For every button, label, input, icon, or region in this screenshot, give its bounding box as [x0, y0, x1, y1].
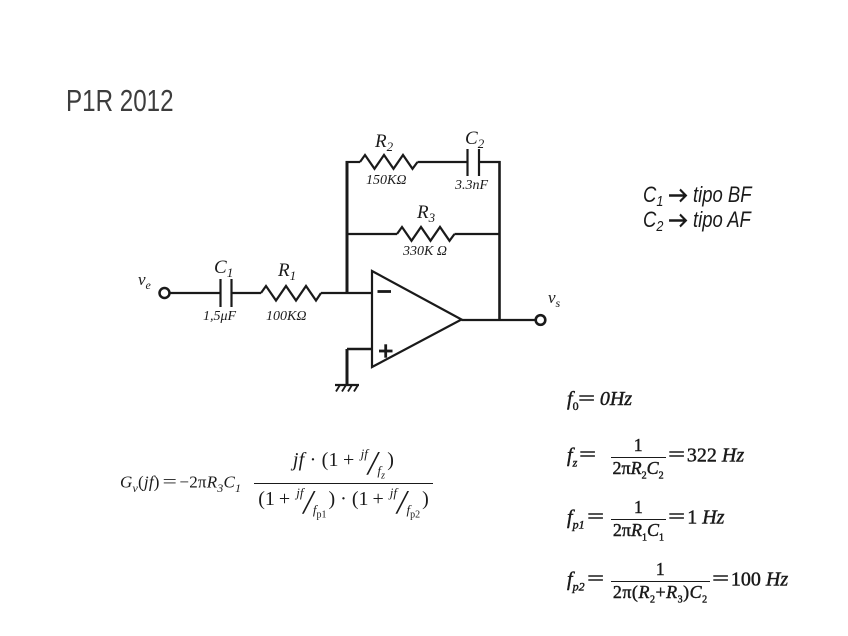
svg-text:3.3nF: 3.3nF [454, 178, 489, 193]
svg-text:R1: R1 [277, 260, 296, 283]
svg-text:100KΩ: 100KΩ [266, 309, 306, 324]
svg-text:vs: vs [548, 288, 561, 310]
svg-text:C2: C2 [465, 128, 485, 151]
svg-text:R2: R2 [374, 131, 394, 154]
svg-text:C1: C1 [214, 257, 233, 280]
svg-text:150KΩ: 150KΩ [366, 173, 406, 188]
svg-text:R3: R3 [416, 202, 436, 225]
svg-text:1,5μF: 1,5μF [203, 309, 237, 324]
svg-text:ve: ve [138, 270, 152, 292]
svg-text:330K Ω: 330K Ω [402, 244, 447, 259]
